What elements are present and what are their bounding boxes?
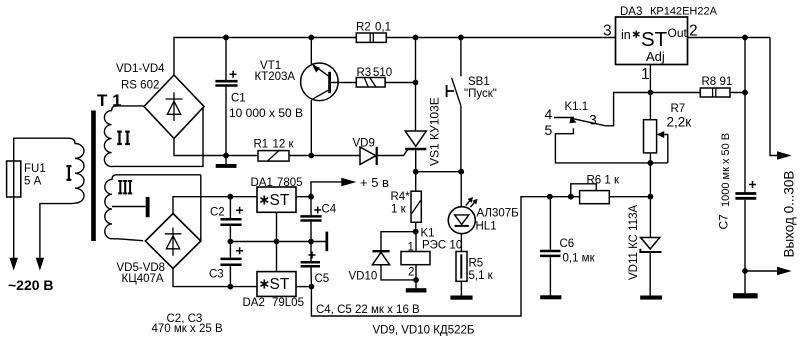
- svg-text:2: 2: [689, 23, 698, 40]
- node dot K1 top: [413, 229, 419, 235]
- svg-text:VD10: VD10: [349, 270, 378, 282]
- wire C4 top lead: [310, 197, 312, 216]
- ground tick winding III tap: [146, 197, 150, 217]
- wire C1 ground stub: [225, 156, 227, 165]
- transistor VT1 body: [301, 63, 339, 101]
- node dot DA1 output: [308, 194, 314, 200]
- svg-text:R7: R7: [671, 103, 686, 115]
- wire winding III center tap: [112, 206, 146, 208]
- arrowhead mains left: [10, 258, 18, 271]
- wire C6 ground stub: [549, 257, 551, 295]
- svg-text:2,2к: 2,2к: [667, 114, 692, 129]
- wire output plus drop to arrow: [770, 38, 780, 156]
- svg-text:+ 5 в: + 5 в: [360, 175, 389, 190]
- wire SB1 top lead: [460, 38, 462, 77]
- svg-text:R1: R1: [254, 139, 269, 151]
- svg-text:SB1: SB1: [468, 76, 490, 88]
- winding II secondary coil: [104, 106, 143, 167]
- transistor VT1 base bar: [328, 72, 331, 93]
- svg-text:R2: R2: [356, 22, 371, 34]
- wire R6 node down to VD11: [649, 197, 651, 238]
- wire winding III top to bridge VD5-VD8 right corner: [200, 175, 202, 241]
- svg-text:R5: R5: [469, 258, 484, 270]
- fuse FU1 lead from mains arrow up to primary: [14, 138, 68, 258]
- svg-text:C5: C5: [315, 273, 330, 285]
- ground symbol C7: [733, 293, 758, 298]
- svg-text:C6: C6: [560, 238, 575, 250]
- capacitor C3 plates: [220, 259, 241, 265]
- ground symbol VD11: [640, 296, 662, 300]
- wire output node arrow lead: [745, 270, 780, 272]
- svg-text:КР142ЕН22А: КР142ЕН22А: [650, 6, 718, 18]
- resistor R8 marking bars: [713, 88, 716, 97]
- svg-text:RS 602: RS 602: [121, 80, 159, 92]
- svg-text:HL1: HL1: [476, 220, 497, 232]
- ground symbol under C1 node: [216, 164, 237, 168]
- wire HL1 to R5: [460, 234, 462, 252]
- wire VD9 cathode to VS1 gate: [377, 150, 408, 156]
- svg-text:3: 3: [603, 23, 612, 40]
- svg-text:C4, C5 22 мк x 16 В: C4, C5 22 мк x 16 В: [316, 304, 420, 316]
- fuse FU1 body: [7, 161, 21, 197]
- node dot C1 bottom: [223, 153, 229, 159]
- wire VS1 cathode lead: [415, 150, 417, 172]
- label winding I: [66, 166, 71, 180]
- wire DA3 Adj pin lead: [649, 65, 651, 93]
- zener VD11 triangle: [641, 238, 660, 249]
- star glyph DA2: [260, 280, 268, 289]
- wire node R7 down to R6 node: [649, 163, 651, 197]
- svg-text:ST: ST: [641, 28, 668, 51]
- svg-text:VD9, VD10 КД522Б: VD9, VD10 КД522Б: [373, 324, 475, 336]
- plus mark C7: [749, 181, 756, 188]
- svg-text:АЛ307Б: АЛ307Б: [477, 208, 519, 220]
- svg-text:1000 мк x 50 В: 1000 мк x 50 В: [720, 133, 732, 207]
- svg-text:12 к: 12 к: [273, 139, 295, 151]
- wire R7 top lead: [649, 93, 651, 120]
- svg-text:5 А: 5 А: [24, 176, 42, 188]
- wire +5v arrow riser: [311, 182, 343, 197]
- capacitor C1 plates: [215, 81, 237, 85]
- node dot HL1 top: [458, 169, 464, 175]
- node dot C6 top: [547, 194, 553, 200]
- wire VD10 anode to coil bottom node: [381, 265, 416, 280]
- wire relay coil K1 bottom lead: [415, 265, 417, 280]
- node dot DA1 gnd: [274, 239, 280, 245]
- transformer T1 core: [91, 111, 96, 242]
- resistor R3 power marking diagonals: [364, 78, 376, 87]
- svg-text:1: 1: [408, 242, 414, 254]
- svg-text:Т 1: Т 1: [97, 91, 122, 110]
- wire R4 bottom lead to node K1: [415, 222, 417, 231]
- resistor R1 body: [258, 151, 289, 162]
- svg-text:VD11 КС 113А: VD11 КС 113А: [628, 204, 640, 280]
- regulator DA2 body: [257, 272, 296, 297]
- svg-text:4: 4: [545, 106, 553, 122]
- resistor R2 power marking bars: [370, 33, 373, 42]
- label winding III: [118, 181, 132, 193]
- ground symbol relay K1: [406, 288, 427, 292]
- wire C5 bottom lead: [310, 267, 312, 286]
- resistor R4 marking diagonal: [411, 200, 421, 214]
- relay coil K1 body: [401, 252, 430, 265]
- plus mark C3: [236, 247, 243, 254]
- resistor R1 marking diagonal: [268, 150, 280, 161]
- svg-text:R4*: R4*: [391, 191, 411, 203]
- wire C1 bottom lead to node: [225, 87, 227, 156]
- diode VD10 triangle: [372, 252, 389, 264]
- svg-text:DA3: DA3: [620, 6, 642, 18]
- resistor R5 body: [456, 252, 467, 282]
- plus mark C4: [314, 207, 321, 214]
- wire node K1 to VD10 cathode: [381, 232, 416, 252]
- wire node VS1 cathode to HL1 top: [416, 171, 462, 173]
- wire C2 top lead: [229, 197, 231, 218]
- node dot R8 right: [742, 90, 748, 96]
- svg-text:R6 1 к: R6 1 к: [587, 174, 620, 186]
- arrowhead output bottom: [777, 267, 792, 276]
- resistor R5 marking bar: [460, 254, 462, 278]
- wire SB1 bottom lead down to HL1 node: [460, 105, 462, 172]
- wire C2 bottom lead: [229, 226, 231, 241]
- wire relay coil K1 top lead: [415, 232, 417, 252]
- transistor VT1 emitter arrow: [313, 66, 320, 73]
- wire contact K1.1 pin 4 lead: [554, 117, 574, 119]
- node dot R6 right VD11: [648, 194, 654, 200]
- node dot C1 top: [223, 35, 229, 41]
- bridge rectifier VD5-VD8 diamond: [145, 214, 201, 269]
- diode VD9 triangle: [360, 147, 376, 165]
- wire DA2 output: [296, 286, 311, 288]
- potentiometer R7 wiper arrow: [657, 131, 664, 138]
- svg-text:R8: R8: [702, 76, 717, 88]
- svg-text:Out: Out: [668, 26, 688, 40]
- wire contact K1.1 pin 5 lead with contact tick: [555, 128, 667, 163]
- zener VD11 cathode bar with bent end: [640, 249, 661, 252]
- svg-text:VD1-VD4: VD1-VD4: [116, 63, 165, 75]
- node dot C4 bottom: [308, 239, 314, 245]
- winding III secondary coil: [105, 175, 201, 241]
- svg-text:C1: C1: [231, 93, 246, 105]
- diode VD10 cathode bar: [372, 250, 389, 252]
- node dot VS1 cathode: [413, 169, 419, 175]
- wire contact K1.1 arm to pin 3 riser: [573, 93, 651, 126]
- ground symbol C6: [540, 295, 561, 299]
- wire R6 wiper staple: [571, 184, 597, 197]
- svg-text:~220 В: ~220 В: [8, 277, 54, 293]
- transistor VT1 collector diagonal: [311, 90, 328, 100]
- svg-text:VD9: VD9: [353, 138, 375, 150]
- svg-text:R3: R3: [357, 67, 372, 79]
- plus mark C5: [309, 252, 316, 259]
- wire VD11 anode to ground: [649, 253, 651, 296]
- svg-text:K1.1: K1.1: [565, 101, 589, 113]
- svg-text:"Пуск": "Пуск": [464, 88, 497, 100]
- node dot C2 bottom: [228, 239, 234, 245]
- node dot K1 bottom: [413, 277, 419, 283]
- svg-text:РЭС 10: РЭС 10: [422, 240, 462, 252]
- svg-text:3: 3: [589, 112, 597, 128]
- svg-text:C2: C2: [210, 206, 225, 218]
- svg-text:ST: ST: [270, 192, 290, 209]
- node dot R6 left: [568, 194, 574, 200]
- wire R4 top lead: [415, 172, 417, 192]
- wire VT1 emitter lead: [310, 38, 312, 64]
- plus mark C2: [236, 207, 243, 214]
- pushbutton SB1 actuator diagonal: [452, 78, 461, 105]
- bridge rectifier VD1-VD4 diamond: [144, 75, 204, 139]
- svg-text:79L05: 79L05: [272, 297, 304, 309]
- resistor R6 body: [580, 191, 610, 204]
- svg-text:C3: C3: [209, 268, 224, 280]
- relay contact K1.1 arm arrowhead: [570, 116, 577, 123]
- svg-text:1: 1: [641, 66, 650, 83]
- transistor VT1 emitter diagonal: [311, 64, 328, 76]
- label winding II: [117, 132, 130, 144]
- svg-text:10 000 x 50 В: 10 000 x 50 В: [229, 106, 303, 120]
- wire C5 top lead: [310, 242, 312, 262]
- wire relay ground stub: [415, 280, 417, 289]
- capacitor C6 plates: [540, 251, 561, 256]
- potentiometer R7 body: [644, 120, 657, 153]
- wire DA1 output to C4 node: [296, 196, 311, 198]
- wire VT1 collector lead: [310, 100, 312, 156]
- capacitor C2 plates: [220, 219, 241, 225]
- wire DA1 GND lead: [276, 212, 278, 241]
- winding I primary coil: [40, 138, 84, 258]
- node dot R3 junction: [413, 80, 419, 86]
- svg-text:DA2: DA2: [243, 297, 265, 309]
- wire HL1 top lead: [460, 172, 462, 207]
- svg-text:470 мк x 25 В: 470 мк x 25 В: [152, 323, 223, 335]
- LED HL1 light arrow b: [470, 202, 474, 207]
- LED HL1 cathode bar: [455, 225, 469, 227]
- plus mark C1: [230, 71, 237, 78]
- LED HL1 arrowhead b: [472, 199, 477, 205]
- svg-text:2: 2: [408, 267, 414, 279]
- wire output node ground stub: [744, 271, 746, 293]
- wire R7 bottom lead: [649, 153, 651, 163]
- svg-text:0,1 мк: 0,1 мк: [563, 253, 596, 265]
- svg-text:Adj: Adj: [646, 49, 665, 64]
- regulator DA1 body: [257, 187, 296, 212]
- node dot output bottom: [742, 268, 748, 274]
- LED HL1 triangle: [455, 215, 469, 225]
- bridge VD5-VD8 inner diode: [165, 228, 182, 256]
- wire DA3 output to top-right corner: [688, 37, 771, 39]
- thyristor VS1 cathode bar: [405, 148, 426, 151]
- svg-text:1 к: 1 к: [391, 203, 407, 215]
- svg-text:5,1 к: 5,1 к: [469, 270, 494, 282]
- ground symbol R5: [450, 296, 472, 300]
- svg-text:КТ203А: КТ203А: [255, 71, 296, 83]
- wire R7 wiper to bottom wire: [658, 135, 668, 163]
- node dot DA2 output: [309, 284, 315, 290]
- wire DA3 output rail down to C7: [744, 38, 746, 193]
- node dot C3 bottom: [228, 284, 234, 290]
- wire middle ground rail DA1 DA2: [229, 241, 325, 243]
- LED HL1 arrowhead a: [468, 197, 473, 203]
- svg-text:VS1 КУ103Е: VS1 КУ103Е: [428, 97, 442, 166]
- LED HL1 light arrow a: [466, 200, 470, 205]
- arrowhead +5v: [341, 178, 356, 187]
- wire Adj node to R8: [650, 92, 745, 94]
- wire bridge VD5-VD8 bottom to DA2 input: [173, 269, 257, 287]
- svg-text:FU1: FU1: [24, 163, 46, 175]
- node dot DA3 out rail: [742, 35, 748, 41]
- star glyph DA3 in: [633, 31, 639, 38]
- capacitor C4 plates: [300, 216, 321, 220]
- resistor R2 body: [356, 33, 386, 42]
- wire top rail from bridge VD1-VD4 top to DA3 input: [174, 38, 616, 76]
- svg-text:C4: C4: [322, 203, 337, 215]
- LED HL1 body: [448, 207, 475, 234]
- wire C1 top lead: [225, 38, 227, 81]
- resistor R4 body: [411, 191, 421, 222]
- node dot R7 bottom: [648, 160, 654, 166]
- svg-text:DA1: DA1: [251, 177, 273, 189]
- regulator DA3 body: [616, 17, 688, 65]
- svg-text:0,1: 0,1: [375, 22, 391, 34]
- wire VT1 base to R3: [331, 82, 416, 84]
- svg-text:ST: ST: [270, 276, 290, 293]
- wire R5 ground stub: [460, 281, 462, 295]
- svg-text:510: 510: [373, 67, 392, 79]
- svg-text:91: 91: [720, 76, 733, 88]
- node dot DA1 input: [228, 194, 234, 200]
- svg-text:C7: C7: [717, 214, 731, 230]
- wire C3 top lead: [229, 242, 231, 258]
- wire C7 bottom to output node: [744, 200, 746, 271]
- resistor R8 body: [700, 88, 730, 97]
- resistor R3 body: [356, 78, 385, 88]
- svg-text:КЦ407А: КЦ407А: [122, 273, 164, 285]
- node dot Adj R7: [648, 90, 654, 96]
- pushbutton SB1 cap bar: [447, 85, 454, 97]
- arrowhead mains right: [36, 258, 44, 271]
- capacitor C5 plates: [301, 262, 320, 266]
- wire bridge VD1-VD4 bottom to R1 row: [174, 139, 360, 156]
- wire bottom loop DA2 output to R6 node rail: [311, 197, 650, 316]
- wire bridge VD5-VD8 top corner to DA1 input: [173, 197, 257, 214]
- thyristor VS1 triangle: [405, 131, 426, 146]
- capacitor C7 plates: [735, 194, 756, 199]
- ground tick middle rail: [326, 232, 329, 252]
- bridge VD1-VD4 inner diode: [166, 92, 183, 121]
- node dot VT1 collector: [308, 153, 314, 159]
- arrowhead output top: [777, 151, 792, 160]
- svg-text:in: in: [621, 28, 631, 42]
- svg-text:Выход 0...30В: Выход 0...30В: [782, 171, 797, 258]
- node dot VT1 emitter: [308, 35, 314, 41]
- node dot SB1 rail: [458, 35, 464, 41]
- svg-text:7805: 7805: [277, 177, 303, 189]
- wire DA2 top lead: [276, 242, 278, 272]
- svg-text:5: 5: [545, 122, 553, 138]
- wire C4 bottom lead: [310, 222, 312, 242]
- node dot VS1 anode rail: [413, 35, 419, 41]
- star glyph DA1: [260, 196, 268, 205]
- wire VS1 anode vertical from rail: [415, 38, 417, 132]
- wire C3 bottom lead: [229, 266, 231, 286]
- diode VD9 cathode bar: [376, 147, 378, 165]
- wire winding II bottom to bridge VD1-VD4 right corner: [117, 108, 203, 167]
- svg-text:K1: K1: [421, 228, 435, 240]
- wire C6 top lead: [549, 197, 551, 250]
- svg-text:VT1: VT1: [260, 60, 281, 72]
